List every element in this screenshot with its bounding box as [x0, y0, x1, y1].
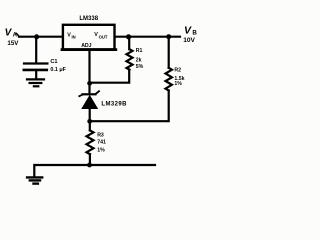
op-amp U1 label LM338	[79, 16, 98, 22]
svg-text:15V: 15V	[7, 40, 19, 47]
wire ADJ pin down	[88, 50, 90, 94]
svg-text:V: V	[94, 32, 98, 38]
wire R2 bottom to node B	[90, 91, 169, 122]
svg-text:R1: R1	[136, 48, 143, 54]
svg-text:10V: 10V	[183, 37, 195, 44]
resistor R3 label	[97, 133, 106, 154]
svg-text:1%: 1%	[97, 148, 105, 154]
node A junction dot input	[34, 34, 39, 39]
node ADJ junction dot	[87, 81, 92, 86]
resistor R2 label	[174, 67, 184, 87]
resistor R1	[127, 49, 133, 69]
svg-text:IN: IN	[72, 35, 76, 40]
diode D1 LM329B zener	[79, 91, 99, 119]
resistor R2	[166, 68, 172, 91]
wire input rail VA to VIN	[19, 36, 63, 38]
wire rail down to R1	[128, 37, 130, 49]
node VA label	[5, 27, 20, 47]
node junction dot on ground rail	[87, 163, 92, 168]
op-amp regulator U1 LM338 box	[62, 25, 116, 50]
node VB label	[183, 24, 197, 44]
svg-text:R2: R2	[174, 67, 181, 73]
svg-text:V: V	[184, 24, 192, 36]
diode D1 label LM329B	[101, 101, 127, 107]
wire node B down to R3	[89, 121, 91, 130]
wire R3 bottom to ground rail	[89, 154, 91, 165]
ground (below C1)	[27, 79, 44, 86]
wire input node down to C1	[35, 37, 37, 62]
node VA input terminal	[17, 34, 20, 37]
wire R1 bottom L to ADJ node	[90, 70, 129, 83]
node junction dot R1 top	[126, 34, 131, 39]
ground (bottom left)	[27, 177, 42, 183]
capacitor C1 label	[50, 59, 66, 73]
svg-text:ADJ: ADJ	[81, 43, 91, 49]
svg-text:LM338: LM338	[79, 16, 98, 22]
capacitor C1	[24, 64, 48, 79]
pin label VOUT	[94, 32, 108, 39]
svg-text:2k: 2k	[136, 57, 142, 63]
svg-text:741: 741	[97, 140, 106, 146]
svg-text:0.1 μF: 0.1 μF	[50, 67, 66, 73]
pin label ADJ	[81, 43, 91, 49]
resistor R3	[87, 130, 94, 154]
svg-text:OUT: OUT	[99, 34, 108, 39]
node junction dot R2 top	[166, 34, 171, 39]
pin label VIN	[67, 32, 75, 39]
svg-text:C1: C1	[50, 59, 57, 65]
svg-text:B: B	[192, 30, 197, 37]
svg-text:R3: R3	[97, 133, 104, 139]
wire ground rail	[34, 165, 155, 177]
svg-text:5%: 5%	[136, 64, 144, 70]
wire VOUT rail to VB	[116, 36, 180, 38]
wire rail down to R2	[168, 37, 170, 68]
svg-text:A: A	[13, 33, 18, 39]
svg-text:LM329B: LM329B	[101, 101, 127, 107]
node B junction dot	[87, 119, 92, 124]
svg-text:1%: 1%	[174, 81, 182, 87]
resistor R1 label	[136, 48, 144, 70]
